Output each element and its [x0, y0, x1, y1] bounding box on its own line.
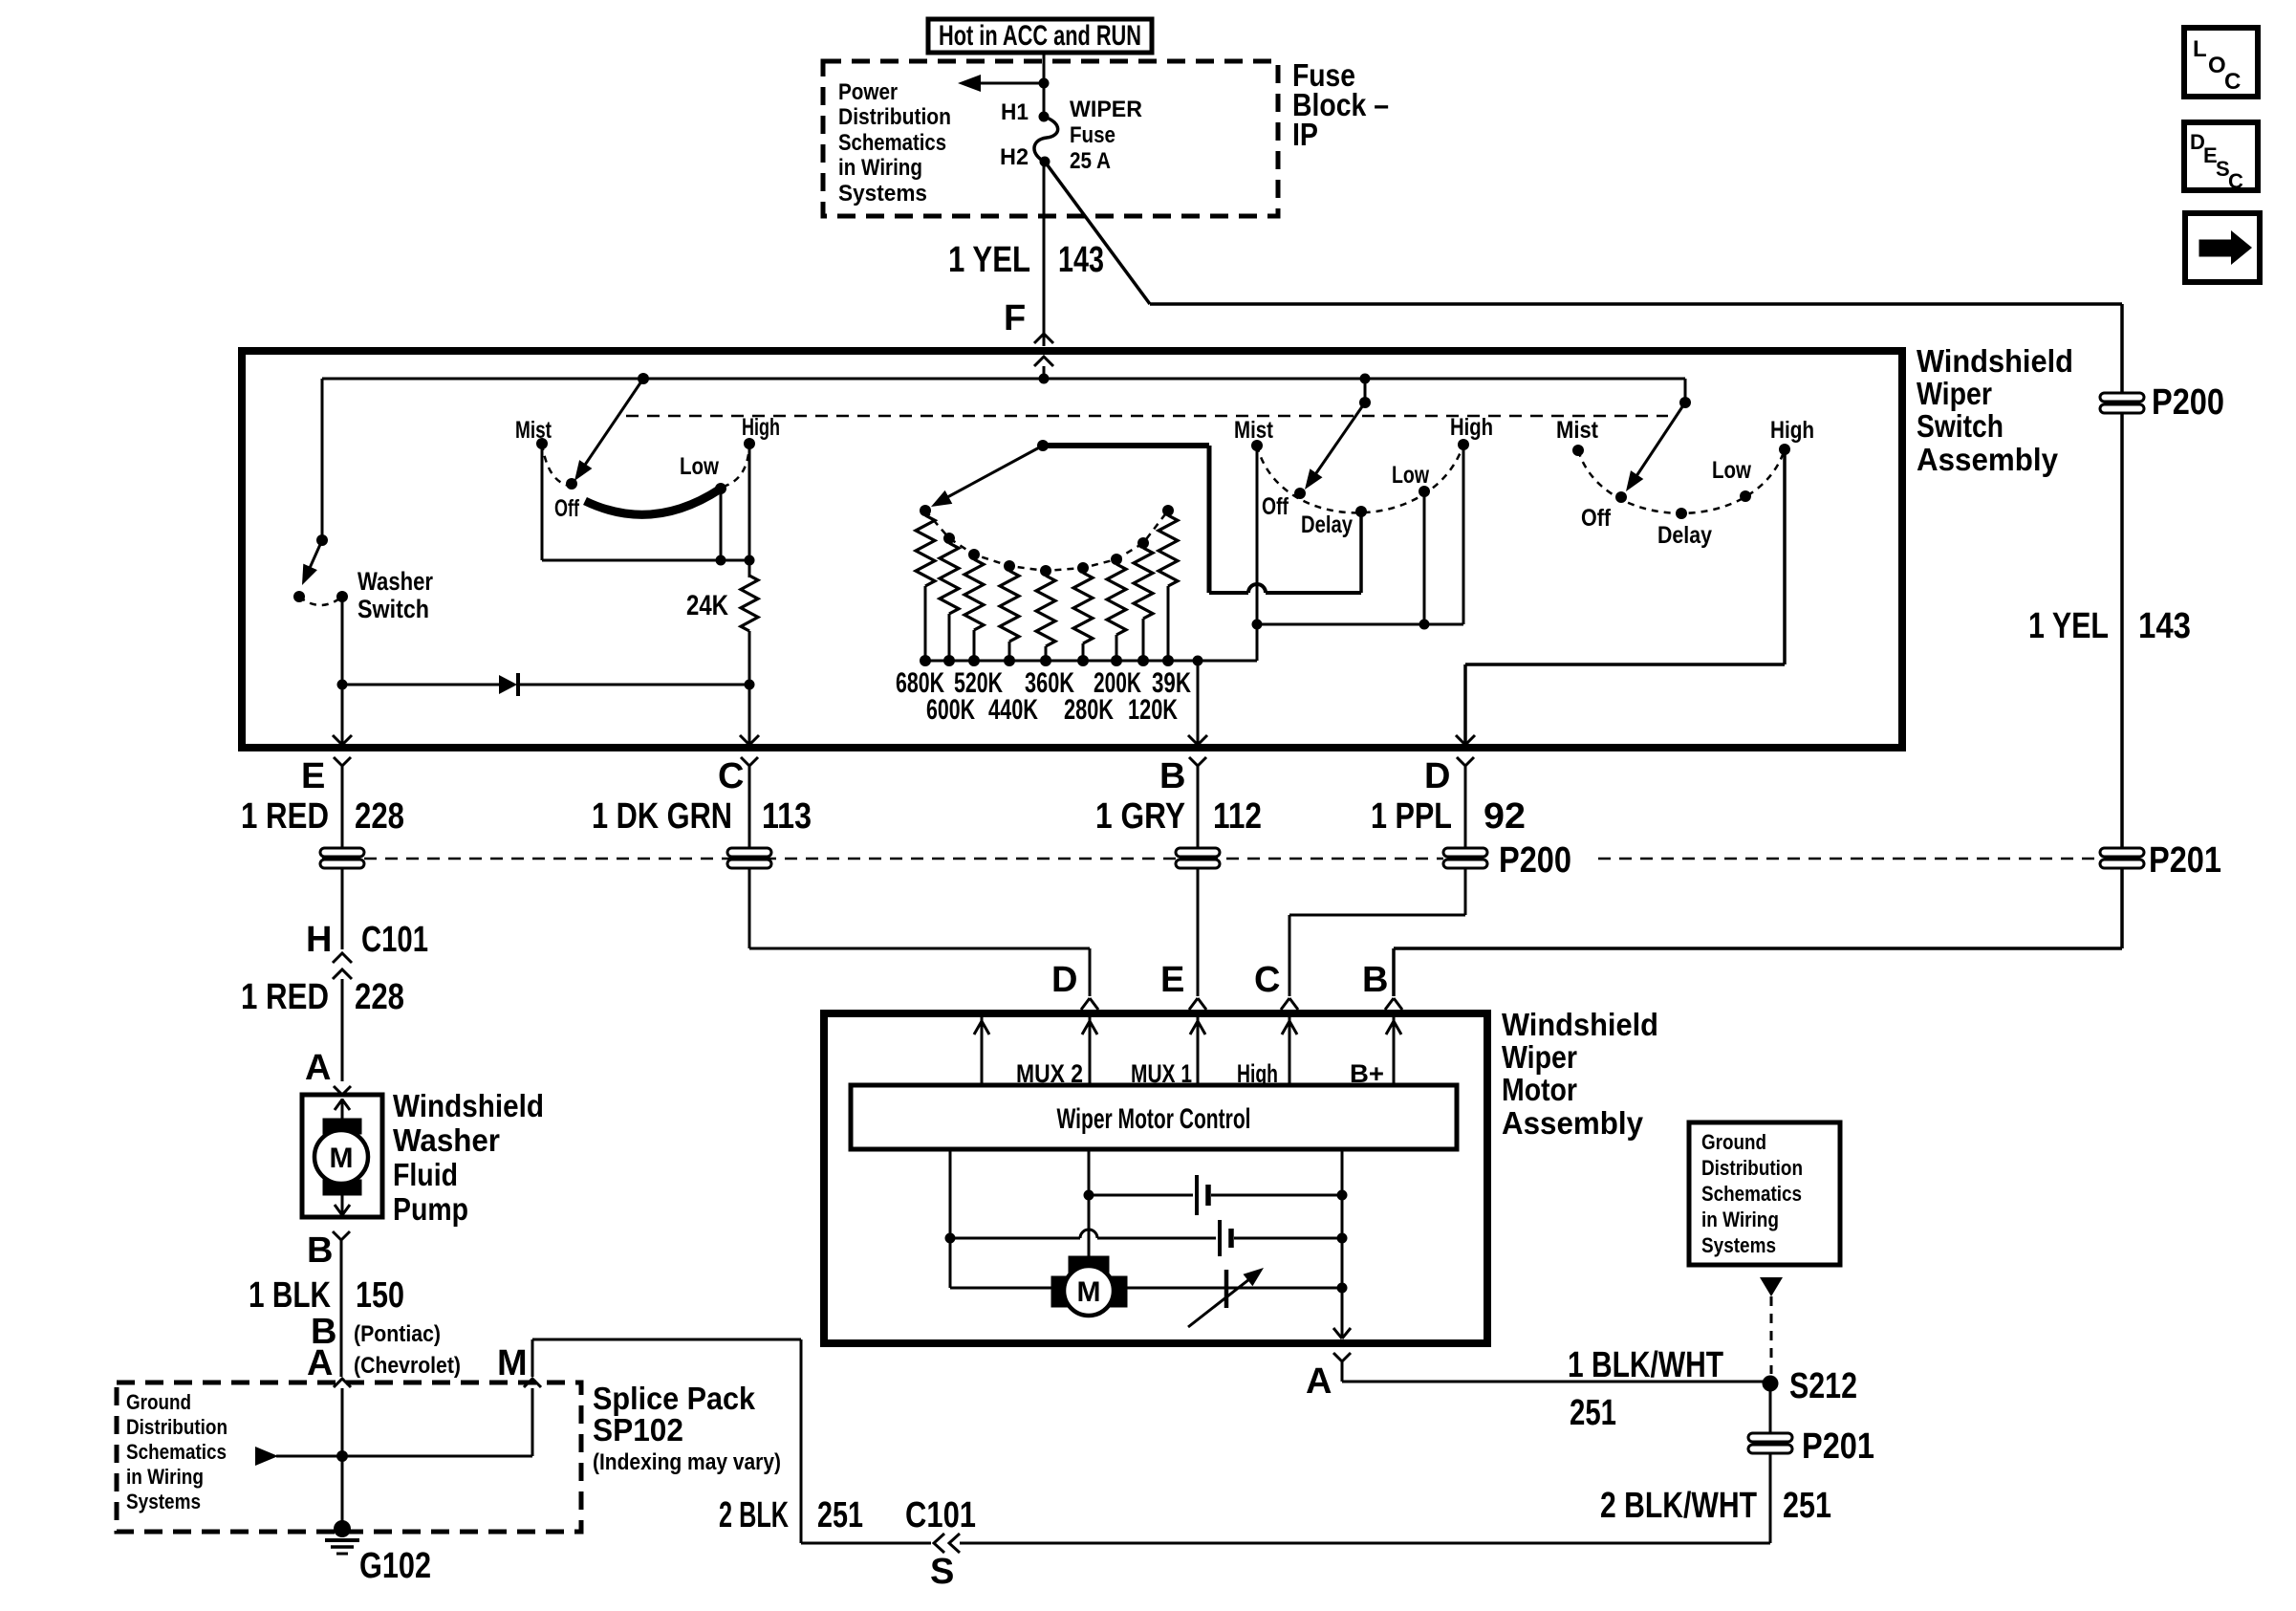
wire: switch 3 High to pin D	[1465, 449, 1785, 744]
svg-text:Wiper Motor Control: Wiper Motor Control	[1057, 1103, 1251, 1135]
node: bus junction High	[745, 555, 755, 566]
node: junction Mist bus	[1252, 620, 1263, 630]
wire: 1 GRY 112 run to motor MUX1	[1197, 869, 1200, 996]
wire: ground run to G102	[341, 1388, 344, 1524]
svg-text:112: 112	[1213, 796, 1262, 837]
switch 3 dashed travel arc	[1578, 449, 1785, 513]
connector C101 pin S chevrons	[934, 1534, 960, 1553]
svg-text:251: 251	[1783, 1486, 1831, 1526]
svg-text:Systems: Systems	[126, 1490, 201, 1513]
label: Ground Distribution Schematics in Wiring Systems (right)	[1701, 1130, 1803, 1257]
label: 2 BLK 251 C101 S	[719, 1495, 976, 1592]
switch 2 contact Mist	[1234, 417, 1274, 451]
resistor 440K	[1000, 560, 1019, 661]
washer switch feed wire	[321, 379, 324, 540]
svg-text:150: 150	[356, 1275, 404, 1316]
wire: feed from Hot in ACC to fuse H1	[1043, 53, 1046, 117]
label: Power Distribution Schematics in Wiring Systems	[838, 79, 951, 207]
wire: 1 YEL to wiper motor B+	[1394, 948, 2122, 996]
switch 3 contact Delay	[1657, 508, 1712, 549]
svg-text:Delay: Delay	[1657, 522, 1712, 549]
svg-text:1 RED: 1 RED	[241, 796, 329, 837]
wire: 1 DK GRN 113 run to motor MUX2	[749, 869, 1090, 996]
wire: switch 2 Mist drop / ladder riser	[1256, 446, 1259, 661]
svg-text:Low: Low	[1392, 462, 1429, 489]
svg-text:Off: Off	[1262, 493, 1289, 520]
splice S212	[1763, 1366, 1858, 1406]
switch 3 contact High	[1770, 417, 1814, 455]
svg-text:1 BLK/WHT: 1 BLK/WHT	[1568, 1345, 1723, 1385]
wire: right vertical 1 YEL 143	[2120, 304, 2124, 948]
wire: Low drop	[1423, 491, 1426, 624]
label: Windshield Washer Fluid Pump	[393, 1088, 544, 1227]
wire: pin D lead	[1464, 766, 1467, 849]
windshield wiper switch assembly box	[242, 351, 1902, 748]
svg-text:280K: 280K	[1064, 694, 1114, 726]
svg-text:B: B	[307, 1230, 333, 1271]
label: Fuse Block - IP	[1292, 57, 1389, 152]
wire: to pin C	[748, 685, 751, 744]
switch 1 contact Off	[554, 478, 579, 522]
fuse block IP dashed box	[823, 61, 1278, 216]
pin M of splice pack	[497, 1343, 541, 1456]
switch 3 contact Mist	[1556, 417, 1599, 456]
svg-text:Windshield: Windshield	[393, 1088, 544, 1123]
svg-text:Low: Low	[1712, 457, 1751, 484]
resistor 680K	[916, 505, 935, 661]
variable resistor arrow	[1188, 1268, 1264, 1327]
svg-text:A: A	[305, 1048, 331, 1088]
svg-text:O: O	[2208, 53, 2226, 78]
resistor ladder wiper pivot	[1037, 440, 1049, 451]
resistor 600K	[940, 533, 959, 661]
wire: splice bus	[276, 1455, 532, 1458]
node: resistor bottom junction	[1004, 655, 1015, 666]
wire: 1 YEL 143 from H2 down to switch pin F	[948, 162, 1104, 346]
svg-text:H1: H1	[1001, 99, 1029, 125]
icon box arrow	[2185, 213, 2260, 282]
svg-text:Low: Low	[680, 453, 719, 480]
svg-text:251: 251	[1570, 1393, 1616, 1433]
wire: 1 BLK 150 pump ground	[249, 1240, 404, 1377]
wire: High drop to bus	[748, 444, 751, 560]
svg-text:Ground: Ground	[1701, 1130, 1766, 1154]
svg-text:(Chevrolet): (Chevrolet)	[354, 1353, 461, 1379]
resistor 39K	[1159, 505, 1178, 661]
wire: pin B lead	[1197, 766, 1200, 849]
svg-text:Systems: Systems	[838, 181, 927, 207]
connector dashed line P200/P201 row	[322, 858, 2100, 860]
svg-text:S: S	[930, 1552, 954, 1592]
resistor 24K	[686, 560, 758, 685]
dashed wiper travel arc over resistor taps	[925, 511, 1168, 571]
svg-text:M: M	[1077, 1276, 1101, 1308]
connector P200 grommet on D wire	[1443, 848, 1487, 857]
connector chevrons at switch box top (pin F)	[1034, 334, 1053, 379]
switch 1 dashed arc Low-High	[723, 446, 749, 487]
svg-text:Ground: Ground	[126, 1390, 191, 1414]
svg-text:228: 228	[355, 796, 404, 837]
svg-text:C: C	[2224, 69, 2241, 95]
switch 2 contact High	[1450, 414, 1493, 450]
switch 1 thick contact blade Off-Low	[585, 489, 721, 514]
pin D of wiper switch	[1424, 735, 1475, 796]
resistor 200K	[1107, 554, 1126, 661]
node: resistor bottom junction	[1111, 655, 1122, 666]
wire: control output left	[950, 1149, 1053, 1288]
triangle to ground distribution	[1760, 1277, 1783, 1296]
svg-text:Motor: Motor	[1502, 1072, 1577, 1107]
switch 2 contact Off	[1262, 488, 1306, 520]
svg-text:Wiper: Wiper	[1917, 376, 1992, 411]
node: junction right park upper	[1337, 1190, 1348, 1201]
pin B of wiper switch	[1159, 735, 1207, 796]
svg-text:Washer: Washer	[393, 1122, 500, 1158]
svg-text:1 YEL: 1 YEL	[948, 240, 1030, 280]
wire: pin C lead	[748, 766, 751, 849]
dashed wire to S212	[1770, 1296, 1773, 1374]
svg-text:C: C	[1254, 960, 1280, 1000]
svg-text:Mist: Mist	[515, 417, 552, 444]
washer switch contact right	[336, 591, 348, 602]
svg-text:F: F	[1004, 298, 1026, 338]
switch 3 feed corner and pivot	[1679, 379, 1691, 408]
svg-text:92: 92	[1484, 796, 1526, 837]
svg-text:A: A	[307, 1343, 333, 1383]
node: resistor bottom junction	[1040, 655, 1051, 666]
switch 2 pivot stub	[1359, 374, 1371, 409]
label: Windshield Wiper Motor Assembly	[1502, 1007, 1658, 1141]
windshield washer fluid pump box	[302, 1095, 382, 1217]
svg-text:Delay: Delay	[1301, 512, 1353, 538]
internal stub unlabeled	[974, 1017, 989, 1085]
svg-text:H2: H2	[1000, 144, 1029, 170]
svg-text:M: M	[497, 1343, 528, 1383]
wire: Low drop to bus	[720, 489, 723, 560]
label: Ground Distribution Schematics in Wiring Systems (left)	[126, 1390, 227, 1513]
pin B of wiper motor	[1362, 960, 1402, 1010]
switch 2 contact Delay	[1301, 506, 1367, 538]
windshield wiper motor assembly box	[824, 1013, 1487, 1343]
node: junction park line	[1084, 1190, 1094, 1201]
label: resistor values row 1	[896, 667, 1191, 699]
node: resistor bottom junction	[943, 655, 955, 666]
svg-text:Distribution: Distribution	[126, 1415, 227, 1439]
arrow to power distribution (left)	[958, 75, 1044, 92]
wire: High drop	[1462, 445, 1465, 624]
svg-text:1 PPL: 1 PPL	[1371, 796, 1452, 837]
svg-text:IP: IP	[1292, 117, 1318, 152]
ground G102	[325, 1520, 431, 1586]
label: Splice Pack SP102	[593, 1381, 781, 1475]
switch 3 arm	[1626, 403, 1685, 491]
svg-text:120K: 120K	[1128, 694, 1178, 726]
pin C of wiper motor	[1254, 960, 1298, 1010]
wiper motor control box	[851, 1085, 1457, 1149]
node: resistor bottom junction	[968, 655, 980, 666]
svg-text:1 RED: 1 RED	[241, 977, 329, 1017]
switch 1 contact High	[742, 414, 780, 449]
svg-text:(Pontiac): (Pontiac)	[354, 1321, 441, 1347]
svg-text:E: E	[1160, 960, 1184, 1000]
svg-text:1 BLK: 1 BLK	[249, 1275, 331, 1316]
svg-text:(Indexing may vary): (Indexing may vary)	[593, 1449, 781, 1475]
internal stub MUX 2	[1082, 1017, 1097, 1085]
node: junction left output	[945, 1233, 956, 1244]
wire: motor common to pin A	[1333, 1149, 1351, 1339]
wire: 1 YEL 143 branch from H2 to right side	[1045, 162, 2122, 304]
node: resistor bottom junction	[920, 655, 931, 666]
connector P200 grommet on C wire	[727, 848, 771, 857]
wire label: 1 RED 228	[241, 796, 404, 837]
svg-text:A: A	[1306, 1361, 1332, 1402]
pin B of washer pump	[307, 1230, 350, 1271]
svg-text:Wiper: Wiper	[1502, 1039, 1577, 1075]
svg-text:Assembly: Assembly	[1502, 1105, 1644, 1141]
node: diode line right junction	[745, 680, 755, 690]
wire label: 2 BLK/WHT 251	[1600, 1454, 1831, 1543]
svg-text:in Wiring: in Wiring	[838, 155, 922, 181]
switch 3 contact Off	[1581, 491, 1627, 532]
wire: control output to motor armature	[1088, 1149, 1091, 1264]
arrow from ground distribution	[255, 1447, 278, 1466]
svg-text:143: 143	[2138, 606, 2191, 646]
pin E of wiper switch	[301, 735, 352, 796]
switch 1 contact Mist	[515, 417, 552, 449]
svg-text:P201: P201	[1802, 1426, 1874, 1467]
svg-text:228: 228	[355, 977, 404, 1017]
switch 1 contact Low	[680, 453, 726, 494]
wire: pin E lead	[341, 766, 344, 849]
pin C of wiper switch	[718, 735, 759, 796]
svg-text:2 BLK: 2 BLK	[719, 1495, 789, 1535]
resistor ladder wiper arm	[931, 446, 1043, 507]
node: junction F feed	[1039, 374, 1050, 384]
wire: Mist drop to bus	[541, 444, 544, 560]
node: junction right park lower	[1337, 1233, 1348, 1244]
resistor 360K	[1036, 565, 1055, 661]
wire: 1 RED 228 run to washer pump	[341, 869, 344, 949]
label: pin A (Chevrolet)	[307, 1343, 461, 1383]
svg-text:in Wiring: in Wiring	[126, 1465, 204, 1489]
svg-text:H: H	[306, 920, 332, 960]
park switch contact upper	[1089, 1175, 1342, 1215]
svg-text:B: B	[1362, 960, 1388, 1000]
svg-text:D: D	[1424, 756, 1450, 796]
pin A of wiper motor	[1306, 1353, 1351, 1402]
label: pin B (Pontiac)	[311, 1312, 441, 1352]
node: resistor bottom junction	[1077, 655, 1089, 666]
svg-text:C: C	[2228, 169, 2243, 193]
wire label: 1 PPL 92	[1371, 796, 1526, 837]
pin E of wiper motor	[1160, 960, 1206, 1010]
wire: 1 PPL 92 run to motor High	[1289, 869, 1465, 996]
resistor 120K	[1134, 537, 1153, 661]
node: junction splice at ground wire	[336, 1450, 348, 1462]
pin D of wiper motor	[1051, 960, 1098, 1010]
svg-text:Distribution: Distribution	[838, 104, 951, 130]
svg-text:High: High	[1770, 417, 1814, 444]
svg-text:WIPER: WIPER	[1070, 97, 1142, 122]
park switch contact lower with wire hop	[950, 1220, 1342, 1256]
svg-text:Off: Off	[554, 495, 579, 522]
wire label: 1 RED 228 (lower)	[241, 977, 404, 1081]
wire: bus to pin B	[1197, 661, 1200, 744]
svg-text:Systems: Systems	[1701, 1233, 1776, 1257]
svg-text:G102: G102	[359, 1546, 431, 1586]
svg-text:Distribution: Distribution	[1701, 1156, 1803, 1180]
svg-text:2 BLK/WHT: 2 BLK/WHT	[1600, 1486, 1757, 1526]
node: junction Low bus	[1419, 620, 1430, 630]
svg-text:25 A: 25 A	[1070, 148, 1111, 174]
label: Washer Switch	[357, 567, 433, 623]
svg-text:Fluid: Fluid	[393, 1157, 458, 1192]
svg-text:Assembly: Assembly	[1917, 442, 2059, 477]
svg-text:L: L	[2193, 36, 2207, 62]
node: bus junction Low	[716, 555, 726, 566]
svg-text:M: M	[330, 1143, 354, 1174]
svg-text:Off: Off	[1581, 505, 1612, 532]
svg-text:113: 113	[762, 796, 812, 837]
connector P200 (right top)	[2100, 382, 2224, 423]
svg-text:1 DK GRN: 1 DK GRN	[592, 796, 732, 837]
svg-text:251: 251	[817, 1495, 863, 1535]
label: Windshield Wiper Switch Assembly	[1917, 343, 2073, 477]
motor M armature	[1051, 1256, 1127, 1316]
svg-text:B: B	[1159, 756, 1185, 796]
svg-text:600K: 600K	[926, 694, 975, 726]
washer switch pivot	[316, 534, 328, 546]
wire: M riser to 2 BLK beam	[532, 1339, 801, 1543]
wire: internal supply bus (top)	[322, 378, 1685, 381]
pin A of washer pump	[305, 1048, 351, 1095]
washer pump motor symbol	[314, 1099, 368, 1215]
icon box DESC	[2184, 122, 2258, 193]
svg-text:1 YEL: 1 YEL	[2028, 606, 2109, 646]
svg-text:1 GRY: 1 GRY	[1095, 796, 1185, 837]
svg-text:Schematics: Schematics	[126, 1440, 227, 1464]
internal stub High	[1282, 1017, 1297, 1085]
connector P201 (right)	[2100, 840, 2221, 881]
svg-text:Washer: Washer	[357, 567, 433, 596]
node: junction to pin B	[1193, 656, 1203, 666]
pin H2 of fuse block	[1040, 157, 1051, 167]
wire: armature return with variable resistor	[1127, 1270, 1342, 1308]
node: resistor bottom junction	[1162, 655, 1174, 666]
svg-text:P200: P200	[1499, 840, 1571, 881]
ground distribution schematics box (right)	[1689, 1122, 1840, 1265]
switch 1 pivot junction	[638, 373, 649, 384]
switch 1 dashed arc Mist-Off	[542, 444, 570, 486]
pin H1 of fuse block	[1039, 112, 1050, 122]
svg-text:Power: Power	[838, 79, 898, 105]
wire: switch 1 bus	[542, 559, 749, 562]
resistor 520K	[964, 549, 984, 661]
svg-text:Switch: Switch	[357, 595, 429, 623]
svg-text:Hot in ACC and RUN: Hot in ACC and RUN	[939, 20, 1141, 52]
internal stub MUX 1	[1190, 1017, 1205, 1085]
splice pack SP102 dashed box	[117, 1382, 581, 1532]
svg-text:Switch: Switch	[1917, 408, 2004, 444]
svg-text:Pump: Pump	[393, 1191, 468, 1227]
wire: 2 BLK 251 beam	[801, 1542, 1770, 1545]
svg-text:Windshield: Windshield	[1502, 1007, 1658, 1042]
svg-text:SP102: SP102	[593, 1412, 683, 1448]
svg-text:143: 143	[1058, 240, 1104, 280]
label: 1 YEL 143 (right)	[2028, 606, 2191, 646]
wire: 1 BLK/WHT 251 from pin A to S212	[1342, 1345, 1770, 1433]
switch 1 arm	[574, 379, 643, 481]
icon box LOC	[2184, 28, 2258, 97]
wire label: 1 GRY 112	[1095, 796, 1262, 837]
mechanical coupling dashed line	[626, 415, 1668, 418]
fuse: WIPER Fuse 25 A	[1034, 97, 1142, 174]
svg-text:Mist: Mist	[1556, 417, 1599, 444]
svg-text:C101: C101	[905, 1495, 976, 1535]
svg-text:Mist: Mist	[1234, 417, 1274, 444]
washer switch dashed travel arc	[299, 597, 342, 605]
switch 2 arm	[1305, 403, 1365, 490]
node: junction on feed	[1039, 78, 1050, 89]
connector C101 pin H	[306, 920, 428, 979]
diode	[342, 673, 749, 696]
svg-text:Windshield: Windshield	[1917, 343, 2073, 379]
label: resistor values row 2	[926, 694, 1178, 726]
node: junction right return	[1337, 1283, 1348, 1294]
wire: S212 to P201	[1769, 1391, 1772, 1433]
washer switch contact left	[293, 591, 305, 602]
wire label: 1 DK GRN 113	[592, 796, 812, 837]
switch 2 dashed travel arc	[1257, 445, 1463, 512]
svg-text:440K: 440K	[988, 694, 1038, 726]
svg-text:Fuse: Fuse	[1070, 122, 1116, 148]
svg-text:24K: 24K	[686, 590, 728, 621]
svg-text:S212: S212	[1789, 1366, 1857, 1406]
internal stub B+	[1386, 1017, 1401, 1085]
svg-text:E: E	[301, 756, 325, 796]
node: resistor bottom junction	[1137, 655, 1149, 666]
svg-text:in Wiring: in Wiring	[1701, 1208, 1779, 1231]
connector chevron into splice pack (pump ground)	[334, 1379, 351, 1387]
power source label box: Hot in ACC and RUN	[928, 19, 1152, 53]
svg-text:Schematics: Schematics	[838, 130, 946, 156]
washer switch arm	[302, 540, 322, 585]
svg-text:P201: P201	[2149, 840, 2221, 881]
wire: wiper common to Delay contact (thick)	[1043, 446, 1361, 593]
wire: washer switch to pin E	[341, 597, 344, 744]
svg-text:D: D	[1051, 960, 1077, 1000]
connector P200 grommet on B wire	[1176, 848, 1220, 857]
svg-text:C101: C101	[361, 920, 428, 960]
svg-text:C: C	[718, 756, 744, 796]
wire: switch 2 common bus	[1257, 623, 1463, 626]
svg-text:Schematics: Schematics	[1701, 1182, 1802, 1206]
switch 3 contact Low	[1712, 457, 1751, 502]
svg-text:High: High	[1450, 414, 1493, 441]
connector P200 grommet on E wire	[320, 848, 364, 857]
switch 2 contact Low	[1392, 462, 1430, 497]
connector P201 (bottom)	[1748, 1426, 1874, 1467]
wire: resistor ladder bottom bus	[925, 660, 1257, 663]
node: diode line left junction	[337, 680, 348, 690]
svg-text:High: High	[742, 414, 780, 441]
resistor 280K	[1073, 562, 1093, 661]
svg-text:P200: P200	[2152, 382, 2224, 423]
svg-text:Splice Pack: Splice Pack	[593, 1381, 756, 1416]
